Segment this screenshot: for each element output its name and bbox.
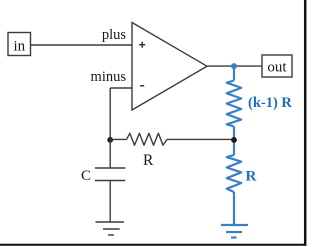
capacitor C <box>95 168 125 181</box>
svg-text:in: in <box>13 38 25 54</box>
op-amp plus pin symbol <box>139 42 145 48</box>
resistor R blue zigzag <box>227 155 242 192</box>
wire blue resistor to ground <box>233 192 235 225</box>
svg-text:out: out <box>267 60 287 76</box>
svg-text:C: C <box>81 168 91 184</box>
node out terminal box <box>262 55 292 77</box>
wire node to resistor R <box>110 138 126 140</box>
op-amp U1 triangle <box>132 23 207 111</box>
node junction minus/C/R <box>107 137 113 143</box>
wire in to plus input <box>31 44 133 46</box>
wire minus input horizontal <box>110 87 132 89</box>
wire op-amp output to out box <box>207 65 262 67</box>
ground black <box>96 222 125 235</box>
resistor (k-1)R blue zigzag <box>227 81 242 127</box>
node in terminal box <box>8 33 31 56</box>
resistor R horizontal zigzag <box>127 133 168 145</box>
svg-text:(k-1) R: (k-1) R <box>248 95 292 111</box>
node feedback junction black dot <box>231 137 237 143</box>
wire node down to capacitor <box>109 139 111 168</box>
svg-text:R: R <box>143 152 154 169</box>
wire minus input vertical down to node <box>109 88 111 139</box>
wire capacitor to ground <box>109 181 111 223</box>
op-amp minus pin symbol <box>140 85 144 87</box>
frame bottom border <box>0 244 306 246</box>
wire resistor R to junction node <box>167 138 234 140</box>
node output junction blue dot <box>231 63 237 69</box>
wire blue zigzag to junction <box>233 127 235 140</box>
svg-text:plus: plus <box>102 27 127 43</box>
svg-text:minus: minus <box>91 69 127 85</box>
ground blue <box>221 225 248 238</box>
wire blue output node down <box>233 66 235 80</box>
wire junction down to resistor R blue <box>233 139 235 155</box>
frame right border <box>304 0 307 246</box>
svg-text:R: R <box>246 169 257 185</box>
